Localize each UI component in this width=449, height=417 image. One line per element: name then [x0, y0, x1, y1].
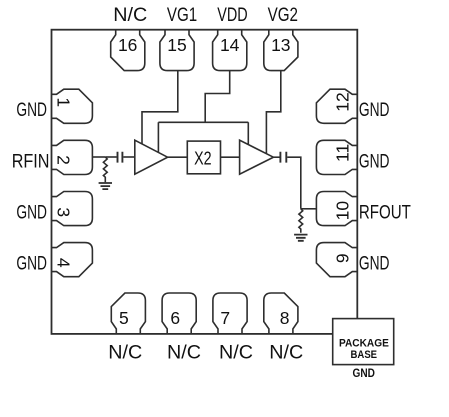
wire VG1 pin15 to A1 bias: [142, 71, 178, 144]
resistor R1 input shunt: [103, 157, 107, 182]
ground input: [99, 183, 112, 189]
wire VDD pin14 to A1 and A2 supply: [158, 71, 248, 153]
pin 5 pad: [111, 293, 145, 334]
svg-text:1: 1: [53, 97, 73, 107]
package base paddle box: [333, 319, 394, 365]
wire A1 output to X2: [168, 156, 188, 158]
svg-text:PACKAGE: PACKAGE: [339, 338, 389, 350]
svg-text:2: 2: [53, 155, 73, 165]
svg-text:N/C: N/C: [269, 343, 303, 364]
wire VG2 pin13 to A2 bias: [266, 71, 280, 154]
svg-text:GND: GND: [16, 100, 47, 121]
svg-text:GND: GND: [359, 100, 390, 121]
wire A2 output to capacitor C2: [273, 156, 279, 158]
svg-text:X2: X2: [194, 148, 212, 168]
pin 7 pad: [213, 293, 247, 334]
pin 11 pad: [316, 140, 357, 174]
wire C2 to node B corner down: [287, 157, 301, 209]
package outline U1 body: [52, 30, 358, 334]
op-amp A2 second amplifier stage: [240, 140, 274, 174]
capacitor C1 input DC block: [118, 152, 123, 163]
X2 frequency doubler box: [187, 141, 220, 174]
svg-text:N/C: N/C: [113, 5, 147, 26]
svg-text:GND: GND: [16, 203, 47, 224]
pin 9 pad: [316, 243, 357, 277]
svg-text:GND: GND: [359, 254, 390, 275]
svg-text:6: 6: [170, 308, 180, 328]
pin 6 pad: [162, 293, 196, 334]
pin 12 pad: [316, 89, 357, 123]
svg-text:N/C: N/C: [167, 343, 201, 364]
svg-text:7: 7: [220, 308, 230, 328]
svg-text:VG2: VG2: [268, 5, 298, 26]
svg-text:13: 13: [271, 35, 290, 55]
pin 4 pad: [52, 243, 93, 277]
svg-text:15: 15: [167, 35, 186, 55]
op-amp A1 first amplifier stage: [135, 140, 168, 174]
pin 1 pad: [52, 89, 93, 123]
capacitor C2 output DC block: [280, 152, 286, 163]
pin 8 pad: [264, 293, 298, 334]
pin 14 pad: [213, 30, 247, 71]
svg-text:GND: GND: [353, 366, 376, 380]
wire C1 to amplifier A1 input: [123, 156, 135, 158]
svg-text:3: 3: [53, 207, 73, 217]
pin 2 pad: [52, 140, 93, 174]
wire X2 to amplifier A2 input: [221, 156, 240, 158]
svg-text:VDD: VDD: [217, 5, 247, 26]
resistor R2 output shunt: [299, 209, 303, 233]
svg-text:GND: GND: [16, 254, 47, 275]
pin 10 pad: [316, 192, 357, 226]
wire RFIN stub pin2 to node A: [93, 156, 105, 158]
pin 16 pad: [111, 30, 145, 71]
svg-text:RFOUT: RFOUT: [359, 203, 411, 224]
svg-text:GND: GND: [359, 151, 390, 172]
svg-text:9: 9: [333, 253, 353, 263]
svg-text:16: 16: [118, 35, 137, 55]
svg-text:VG1: VG1: [167, 5, 197, 26]
ground output: [294, 235, 307, 241]
svg-text:N/C: N/C: [108, 343, 142, 364]
svg-text:10: 10: [333, 201, 353, 221]
pin 15 pad: [160, 30, 194, 71]
svg-text:12: 12: [333, 92, 353, 111]
wire node B to RFOUT pin10: [301, 208, 316, 210]
svg-text:5: 5: [119, 308, 129, 328]
svg-text:14: 14: [220, 35, 240, 55]
svg-text:4: 4: [53, 258, 73, 268]
svg-text:N/C: N/C: [219, 343, 253, 364]
svg-text:8: 8: [280, 308, 290, 328]
svg-text:RFIN: RFIN: [12, 151, 50, 172]
pin 3 pad: [52, 192, 93, 226]
svg-text:BASE: BASE: [351, 349, 378, 361]
pin 13 pad: [264, 30, 298, 71]
wire node A to capacitor C1: [105, 156, 116, 158]
svg-text:11: 11: [333, 144, 353, 162]
